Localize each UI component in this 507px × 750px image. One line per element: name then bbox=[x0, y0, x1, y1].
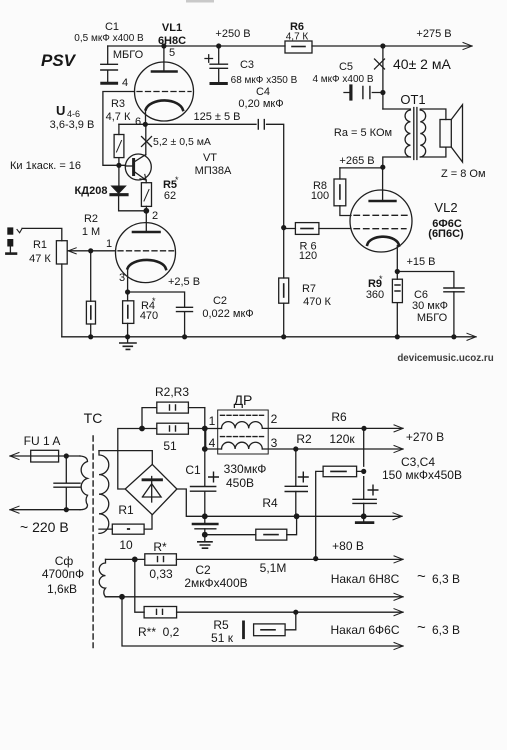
svg-text:2: 2 bbox=[271, 412, 278, 426]
svg-text:5: 5 bbox=[169, 47, 175, 59]
svg-text:МП38А: МП38А bbox=[195, 165, 232, 177]
svg-text:ДР: ДР bbox=[234, 392, 253, 408]
svg-text:R3: R3 bbox=[111, 98, 125, 110]
svg-text:0,5 мкФ x400 В: 0,5 мкФ x400 В bbox=[74, 33, 144, 44]
svg-text:R1: R1 bbox=[118, 503, 134, 517]
svg-text:100: 100 bbox=[311, 190, 329, 202]
svg-text:5,1М: 5,1М bbox=[260, 561, 287, 575]
svg-text:120к: 120к bbox=[329, 432, 355, 446]
svg-text:КД208: КД208 bbox=[75, 185, 108, 197]
svg-text:4 мкФ x400 В: 4 мкФ x400 В bbox=[312, 74, 373, 85]
svg-text:*: * bbox=[152, 296, 156, 306]
svg-text:VT: VT bbox=[203, 152, 217, 164]
svg-text:360: 360 bbox=[366, 289, 384, 301]
svg-text:*: * bbox=[175, 175, 179, 185]
svg-text:6: 6 bbox=[135, 116, 141, 128]
svg-text:~: ~ bbox=[417, 619, 426, 636]
svg-text:10: 10 bbox=[119, 538, 133, 552]
svg-text:R7: R7 bbox=[302, 283, 316, 295]
svg-text:+250 В: +250 В bbox=[215, 28, 250, 40]
svg-text:С3,С4: С3,С4 bbox=[401, 455, 435, 469]
svg-text:3,6-3,9 В: 3,6-3,9 В bbox=[50, 119, 95, 131]
svg-text:R6: R6 bbox=[331, 410, 347, 424]
svg-text:62: 62 bbox=[164, 190, 176, 202]
svg-text:0,2: 0,2 bbox=[163, 625, 180, 639]
svg-text:150 мкФх450В: 150 мкФх450В bbox=[382, 468, 462, 482]
svg-text:+265 В: +265 В bbox=[339, 155, 374, 167]
svg-text:ОТ1: ОТ1 bbox=[400, 92, 425, 107]
svg-text:120: 120 bbox=[299, 250, 317, 262]
svg-text:2: 2 bbox=[152, 210, 158, 222]
svg-text:470 К: 470 К bbox=[303, 296, 331, 308]
svg-text:4,7 К: 4,7 К bbox=[286, 32, 309, 43]
svg-text:0,022 мкФ: 0,022 мкФ bbox=[202, 308, 253, 320]
svg-text:4,7 К: 4,7 К bbox=[106, 111, 131, 123]
svg-text:Накал 6Н8С: Накал 6Н8С bbox=[331, 572, 400, 586]
svg-text:1: 1 bbox=[106, 238, 112, 250]
svg-text:С2: С2 bbox=[213, 295, 227, 307]
svg-text:R*: R* bbox=[153, 540, 167, 554]
svg-text:Сф: Сф bbox=[55, 554, 74, 568]
svg-text:6,3 В: 6,3 В bbox=[432, 623, 460, 637]
svg-text:R2: R2 bbox=[296, 432, 312, 446]
svg-text:+270 В: +270 В bbox=[406, 430, 444, 444]
svg-text:VL2: VL2 bbox=[434, 200, 457, 215]
svg-text:51: 51 bbox=[163, 439, 177, 453]
svg-text:~: ~ bbox=[417, 568, 426, 585]
svg-text:ТС: ТС bbox=[84, 410, 103, 426]
svg-text:4700пФ: 4700пФ bbox=[42, 567, 84, 581]
svg-text:U: U bbox=[56, 103, 65, 118]
svg-text:VL1: VL1 bbox=[162, 22, 182, 34]
svg-text:С3: С3 bbox=[240, 59, 254, 71]
svg-text:~ 220 В: ~ 220 В bbox=[20, 519, 69, 535]
svg-text:С2: С2 bbox=[195, 563, 211, 577]
svg-text:МБГО: МБГО bbox=[417, 312, 448, 324]
svg-text:C1: C1 bbox=[185, 463, 201, 477]
svg-text:330мкФ: 330мкФ bbox=[224, 462, 267, 476]
svg-text:51 к: 51 к bbox=[211, 631, 234, 645]
svg-text:devicemusic.ucoz.ru: devicemusic.ucoz.ru bbox=[397, 353, 493, 364]
svg-text:+80 В: +80 В bbox=[332, 539, 364, 553]
svg-text:+2,5 В: +2,5 В bbox=[168, 276, 200, 288]
svg-text:+15 В: +15 В bbox=[406, 256, 435, 268]
svg-text:1 М: 1 М bbox=[82, 226, 100, 238]
svg-text:3: 3 bbox=[271, 436, 278, 450]
svg-text:FU 1 A: FU 1 A bbox=[24, 434, 61, 448]
svg-text:30 мкФ: 30 мкФ bbox=[412, 300, 448, 312]
svg-text:6Н8С: 6Н8С bbox=[158, 35, 186, 47]
svg-text:1,6кВ: 1,6кВ bbox=[47, 582, 77, 596]
svg-text:(6П6С): (6П6С) bbox=[428, 228, 464, 240]
svg-text:47 К: 47 К bbox=[29, 253, 51, 265]
svg-text:2мкФх400В: 2мкФх400В bbox=[184, 576, 247, 590]
svg-text:Накал 6Ф6С: Накал 6Ф6С bbox=[331, 623, 400, 637]
svg-text:R5: R5 bbox=[213, 618, 229, 632]
svg-text:68 мкФ x350 В: 68 мкФ x350 В bbox=[231, 75, 298, 86]
svg-text:Ки 1каск. = 16: Ки 1каск. = 16 bbox=[10, 160, 81, 172]
svg-text:4: 4 bbox=[122, 77, 128, 89]
svg-text:*: * bbox=[379, 274, 383, 284]
svg-text:C1: C1 bbox=[105, 21, 119, 33]
svg-text:470: 470 bbox=[140, 310, 158, 322]
svg-text:МБГО: МБГО bbox=[113, 49, 144, 61]
svg-text:R2: R2 bbox=[84, 213, 98, 225]
svg-text:40± 2 мА: 40± 2 мА bbox=[393, 56, 451, 72]
svg-text:С4: С4 bbox=[256, 86, 270, 98]
svg-text:1: 1 bbox=[209, 414, 216, 428]
svg-text:PSV: PSV bbox=[41, 51, 77, 70]
svg-text:450В: 450В bbox=[226, 476, 254, 490]
svg-text:6,3 В: 6,3 В bbox=[432, 572, 460, 586]
svg-text:0,33: 0,33 bbox=[149, 567, 173, 581]
svg-text:R4: R4 bbox=[262, 496, 278, 510]
svg-text:3: 3 bbox=[119, 272, 125, 284]
svg-text:4: 4 bbox=[209, 436, 216, 450]
svg-text:R2,R3: R2,R3 bbox=[155, 385, 189, 399]
svg-text:0,20 мкФ: 0,20 мкФ bbox=[238, 98, 283, 110]
svg-text:5,2 ± 0,5 мА: 5,2 ± 0,5 мА bbox=[153, 136, 211, 148]
svg-text:125 ± 5 В: 125 ± 5 В bbox=[193, 111, 240, 123]
svg-text:+275 В: +275 В bbox=[416, 28, 451, 40]
svg-text:R1: R1 bbox=[33, 239, 47, 251]
svg-text:С5: С5 bbox=[339, 61, 353, 73]
svg-text:Ra = 5 КОм: Ra = 5 КОм bbox=[334, 127, 392, 139]
svg-text:4-6: 4-6 bbox=[67, 109, 80, 119]
svg-text:R**: R** bbox=[138, 625, 156, 639]
svg-text:Z = 8 Ом: Z = 8 Ом bbox=[441, 168, 486, 180]
